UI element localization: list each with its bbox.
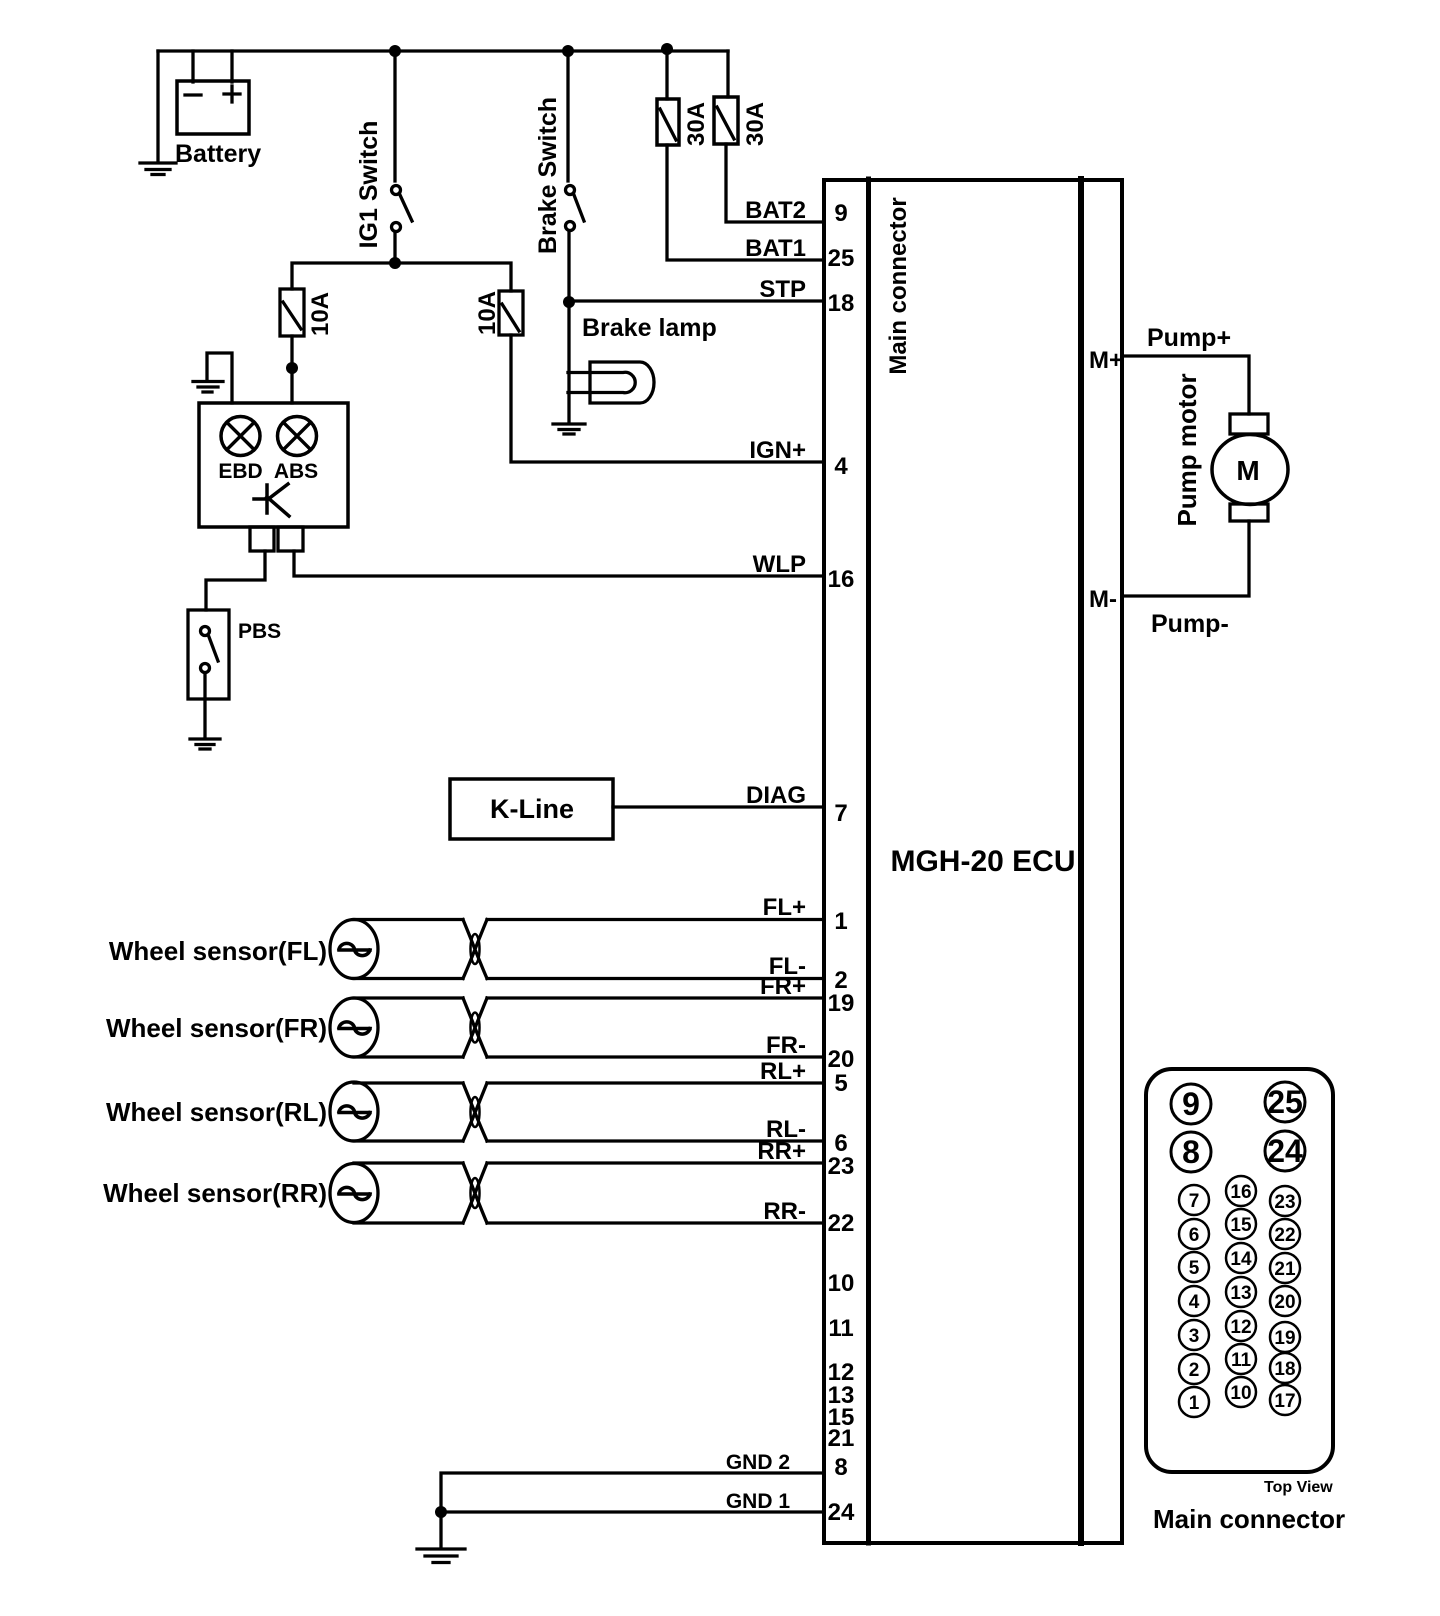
ground battery: [140, 163, 176, 175]
svg-text:23: 23: [1274, 1192, 1295, 1213]
svg-text:11: 11: [828, 1315, 853, 1342]
main connector top view outline: [1146, 1069, 1333, 1472]
connector pin 3: [1179, 1320, 1209, 1350]
wire BAT1: [667, 145, 824, 260]
svg-text:16: 16: [1230, 1182, 1251, 1203]
wheel sensor FR: [330, 998, 378, 1057]
wire tab1 to PBS: [206, 551, 265, 610]
svg-text:ABS: ABS: [274, 460, 318, 483]
connector pin 21: [1270, 1253, 1300, 1283]
svg-text:19: 19: [1274, 1328, 1295, 1349]
svg-text:2: 2: [1189, 1360, 1200, 1381]
svg-text:11: 11: [1231, 1350, 1252, 1371]
svg-text:25: 25: [828, 245, 855, 272]
svg-text:PBS: PBS: [238, 620, 281, 643]
connector pin 7: [1179, 1185, 1209, 1215]
svg-text:30A: 30A: [742, 102, 769, 146]
node IG1 bottom junction: [389, 257, 401, 269]
K-Line box: [450, 779, 613, 839]
svg-text:Wheel sensor(FR): Wheel sensor(FR): [106, 1013, 327, 1043]
svg-text:IG1 Switch: IG1 Switch: [355, 121, 383, 249]
warning lamp box: [199, 403, 348, 527]
svg-text:STP: STP: [759, 276, 806, 303]
svg-text:30A: 30A: [683, 102, 710, 146]
wire junction to both 10A fuses: [292, 263, 511, 291]
connector pin 25: [1265, 1082, 1305, 1122]
svg-text:DIAG: DIAG: [746, 782, 806, 809]
pump motor brush bottom: [1230, 504, 1268, 521]
lamp brake bulb: [590, 362, 654, 403]
connector pin 20: [1270, 1286, 1300, 1316]
switch Brake: [566, 186, 575, 195]
connector pin 24: [1265, 1131, 1305, 1171]
wheel sensor FL: [330, 920, 378, 979]
wire STP: [569, 299, 824, 302]
switch IG1: [392, 186, 401, 195]
wire GND2: [441, 1473, 824, 1512]
node IG1 top: [389, 45, 401, 57]
wire IG1 drop: [393, 51, 396, 181]
fuse F3 10A left: [280, 289, 304, 336]
svg-text:Pump+: Pump+: [1147, 324, 1231, 352]
wire DIAG: [613, 805, 824, 808]
motor M: [1212, 435, 1288, 505]
connector pin 11: [1226, 1344, 1256, 1374]
connector pin 6: [1179, 1219, 1209, 1249]
svg-text:Pump-: Pump-: [1151, 610, 1229, 638]
wire battery negative to ground: [158, 51, 193, 162]
ground main: [439, 1512, 442, 1548]
node GND junction: [435, 1506, 447, 1518]
connector pin 5: [1179, 1252, 1209, 1282]
lamp ABS: [278, 417, 317, 456]
node below fuse F3: [286, 362, 298, 374]
connector pin 16: [1226, 1176, 1256, 1206]
svg-text:24: 24: [1267, 1133, 1303, 1169]
connector pin 13: [1226, 1277, 1256, 1307]
connector pin 19: [1270, 1322, 1300, 1352]
svg-text:IGN+: IGN+: [749, 437, 806, 464]
svg-text:20: 20: [828, 1046, 855, 1073]
switch PBS: [188, 610, 229, 699]
connector pin 22: [1270, 1219, 1300, 1249]
svg-text:12: 12: [1230, 1317, 1251, 1338]
svg-text:23: 23: [828, 1153, 855, 1180]
svg-text:BAT2: BAT2: [745, 197, 806, 224]
ECU MGH-20 box: [824, 180, 1122, 1543]
svg-text:20: 20: [1274, 1292, 1295, 1313]
svg-text:RL+: RL+: [760, 1058, 806, 1085]
wire WLP: [294, 551, 824, 576]
wire Pump+: [1122, 356, 1249, 414]
connector pin 15: [1226, 1209, 1256, 1239]
svg-text:16: 16: [828, 566, 855, 593]
wire GND1: [441, 1510, 824, 1513]
svg-text:17: 17: [1274, 1391, 1295, 1412]
svg-text:22: 22: [828, 1210, 855, 1237]
svg-text:22: 22: [1274, 1225, 1295, 1246]
svg-text:GND 2: GND 2: [726, 1451, 790, 1474]
node 30A left top: [661, 43, 673, 55]
wire into 30A fuses: [667, 49, 728, 99]
wire FL+: [487, 918, 824, 921]
transistor lamp driver: [254, 484, 289, 516]
fuse F1 30A left: [657, 99, 679, 145]
node STP junction: [563, 296, 575, 308]
svg-text:EBD: EBD: [218, 460, 262, 483]
svg-text:FR-: FR-: [766, 1032, 806, 1059]
wheel sensor RL: [330, 1082, 378, 1141]
svg-text:WLP: WLP: [753, 551, 806, 578]
svg-text:Battery: Battery: [175, 140, 261, 168]
svg-text:1: 1: [834, 908, 847, 935]
svg-text:15: 15: [1230, 1215, 1252, 1236]
svg-text:MGH-20 ECU: MGH-20 ECU: [890, 845, 1075, 878]
wire FL-: [487, 977, 824, 980]
svg-text:25: 25: [1267, 1084, 1303, 1120]
ground warning-box stub: [207, 353, 232, 403]
svg-text:FR+: FR+: [760, 973, 806, 1000]
lamp EBD: [221, 417, 260, 456]
svg-text:7: 7: [834, 800, 847, 827]
svg-text:21: 21: [828, 1425, 855, 1452]
svg-text:24: 24: [828, 1499, 855, 1526]
svg-text:8: 8: [834, 1454, 847, 1481]
wire brake lamp drop: [567, 302, 570, 423]
svg-text:21: 21: [1274, 1259, 1296, 1280]
connector pin 1: [1179, 1387, 1209, 1417]
svg-text:FL+: FL+: [763, 894, 806, 921]
svg-text:10A: 10A: [474, 291, 501, 335]
wire brake switch drop: [566, 51, 569, 181]
svg-text:Main connector: Main connector: [1153, 1504, 1345, 1534]
svg-text:5: 5: [1189, 1258, 1200, 1279]
svg-text:3: 3: [1189, 1326, 1200, 1347]
wire battery positive up: [230, 51, 233, 82]
wire Pump-: [1122, 521, 1249, 596]
svg-text:GND 1: GND 1: [726, 1490, 791, 1513]
wire RL-: [487, 1139, 824, 1142]
wire FR-: [487, 1055, 824, 1058]
ECU pin column divider: [866, 179, 871, 1543]
wire fuse to lamp box: [290, 336, 293, 403]
connector pin 17: [1270, 1385, 1300, 1415]
svg-text:6: 6: [1189, 1225, 1200, 1246]
svg-text:18: 18: [828, 290, 855, 317]
svg-text:19: 19: [828, 990, 855, 1017]
wire BAT2: [726, 144, 824, 222]
svg-text:Brake Switch: Brake Switch: [534, 97, 562, 254]
svg-text:8: 8: [1182, 1134, 1200, 1170]
battery: [177, 81, 249, 134]
connector pin 10: [1226, 1377, 1256, 1407]
connector pin 9: [1171, 1084, 1211, 1124]
svg-text:M-: M-: [1089, 586, 1117, 613]
svg-text:K-Line: K-Line: [490, 794, 574, 824]
svg-text:M+: M+: [1089, 347, 1123, 374]
connector pin 23: [1270, 1186, 1300, 1216]
svg-text:13: 13: [1230, 1283, 1251, 1304]
svg-text:BAT1: BAT1: [745, 235, 806, 262]
svg-text:10: 10: [828, 1270, 855, 1297]
svg-text:M: M: [1236, 455, 1259, 486]
fuse F2 30A right: [714, 97, 738, 144]
svg-text:RR+: RR+: [757, 1138, 806, 1165]
wire RR+: [487, 1161, 824, 1164]
connector pin 8: [1171, 1132, 1211, 1172]
connector pin 14: [1226, 1243, 1256, 1273]
svg-text:10A: 10A: [307, 292, 334, 336]
wheel sensor RR: [330, 1164, 378, 1223]
svg-text:4: 4: [1189, 1292, 1200, 1313]
svg-text:4: 4: [834, 453, 848, 480]
ECU right column divider: [1078, 179, 1084, 1543]
wire RR-: [487, 1221, 824, 1224]
svg-text:Wheel sensor(RR): Wheel sensor(RR): [103, 1178, 327, 1208]
connector tabs under box: [250, 527, 274, 551]
pump motor brush top: [1230, 414, 1268, 434]
svg-text:Pump motor: Pump motor: [1172, 373, 1202, 526]
svg-text:Main connector: Main connector: [885, 197, 912, 374]
wire RL+: [487, 1081, 824, 1084]
connector pin 2: [1179, 1354, 1209, 1384]
svg-text:7: 7: [1189, 1191, 1200, 1212]
wire top bus: [158, 49, 728, 52]
connector pin 18: [1270, 1353, 1300, 1383]
ground brake lamp: [553, 424, 585, 434]
wire FR+: [487, 996, 824, 999]
svg-text:Brake lamp: Brake lamp: [582, 314, 717, 342]
svg-text:5: 5: [834, 1070, 847, 1097]
svg-text:9: 9: [1182, 1086, 1200, 1122]
svg-text:Wheel sensor(RL): Wheel sensor(RL): [106, 1097, 327, 1127]
svg-text:1: 1: [1189, 1393, 1200, 1414]
wire IGN+: [511, 335, 824, 462]
svg-text:Top View: Top View: [1264, 1479, 1333, 1496]
svg-text:RR-: RR-: [763, 1198, 806, 1225]
svg-text:18: 18: [1274, 1359, 1295, 1380]
svg-text:Wheel sensor(FL): Wheel sensor(FL): [109, 936, 327, 966]
svg-text:14: 14: [1230, 1249, 1252, 1270]
svg-text:10: 10: [1230, 1383, 1251, 1404]
connector pin 4: [1179, 1286, 1209, 1316]
connector pin 12: [1226, 1311, 1256, 1341]
node brake switch top: [562, 45, 574, 57]
ground PBS: [190, 739, 220, 749]
fuse F4 10A right: [499, 291, 523, 335]
svg-text:9: 9: [834, 200, 847, 227]
